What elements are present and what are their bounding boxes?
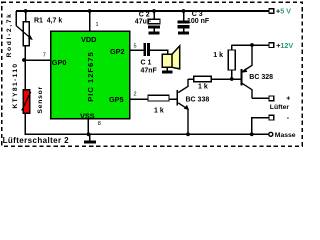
wire GP5 to R — [130, 98, 148, 100]
svg-text:+5 V: +5 V — [276, 7, 291, 16]
resistor R1 body (poti) — [23, 22, 29, 46]
wire R2 to node B — [211, 78, 240, 80]
svg-text:Rodl-2,7k: Rodl-2,7k — [6, 13, 13, 58]
wire VSS to Masse rail — [87, 119, 89, 135]
node VSS junction — [87, 132, 91, 136]
wire VDD to +5V rail — [89, 11, 91, 31]
svg-text:GP2: GP2 — [110, 47, 125, 56]
node Q2 emitter tap — [250, 43, 254, 47]
ground (below speaker) — [162, 70, 173, 73]
transistor Q2 BC328 (PNP) — [240, 45, 273, 98]
svg-text:Lüfter: Lüfter — [270, 104, 290, 111]
node B (base node) — [230, 77, 234, 81]
wire GP2 to C1 — [130, 49, 144, 51]
node C2 tap — [152, 9, 156, 13]
wire Q2 collector to Luefter+ — [252, 97, 269, 99]
sensor KTY81-110 body — [22, 90, 31, 114]
svg-text:Lüfterschalter 2: Lüfterschalter 2 — [3, 136, 70, 145]
wire poti top stub — [25, 11, 27, 22]
svg-text:GP0: GP0 — [52, 58, 67, 67]
terminal +5V — [269, 7, 291, 16]
svg-text:7: 7 — [43, 53, 46, 59]
speaker (piezo) — [162, 46, 180, 70]
resistor 1k (pull-up to +12V) — [228, 45, 235, 79]
resistor 1k (GP5 base series) — [148, 95, 169, 101]
svg-text:8: 8 — [98, 121, 101, 127]
svg-text:R14,7 k: R14,7 k — [34, 17, 62, 24]
terminal Luefter + — [269, 95, 290, 102]
node poti tap on +5V rail — [24, 9, 28, 13]
svg-text:VSS: VSS — [80, 111, 95, 120]
svg-text:GP5: GP5 — [109, 95, 124, 104]
wire poti bottom to node — [24, 46, 26, 61]
op-amp U1 : PIC12F675 block — [51, 31, 130, 120]
wire node to sensor — [24, 60, 26, 90]
svg-text:1 k: 1 k — [213, 52, 223, 59]
svg-text:BC 338: BC 338 — [186, 96, 210, 103]
svg-text:47nF: 47nF — [141, 67, 158, 74]
wire Luefter- to Masse rail — [252, 118, 269, 135]
capacitor C3 (100nF) — [178, 11, 190, 31]
wire +5V rail — [16, 10, 269, 12]
border frame (dashed) — [2, 2, 303, 146]
wire sensor bottom to Masse rail — [25, 113, 28, 134]
wire Masse rail — [25, 133, 268, 135]
svg-text:+: + — [286, 95, 290, 102]
svg-text:VDD: VDD — [81, 35, 96, 44]
svg-text:BC 328: BC 328 — [249, 74, 273, 81]
node C3 tap — [182, 9, 186, 13]
svg-text:2: 2 — [134, 92, 137, 98]
transistor Q1 BC338 (NPN) — [176, 79, 209, 134]
terminal +12V — [269, 41, 293, 50]
node A (divider node) — [22, 58, 26, 62]
svg-text:+12V: +12V — [276, 41, 293, 50]
ground (below C3) — [178, 31, 189, 34]
svg-text:1: 1 — [96, 22, 99, 28]
svg-text:Masse: Masse — [275, 132, 296, 139]
wire node to GP0 — [24, 59, 50, 61]
svg-text:100 nF: 100 nF — [187, 18, 210, 25]
potentiometer R1 wiper arrow — [16, 26, 33, 41]
svg-text:1 k: 1 k — [154, 108, 164, 115]
node Q1 emitter on Masse rail — [186, 132, 190, 136]
terminal Luefter - — [269, 115, 290, 122]
svg-text:C 3: C 3 — [192, 11, 203, 18]
wire R to Q1 base — [169, 98, 176, 100]
capacitor C1 (47nF) — [144, 43, 150, 56]
svg-text:PIC 12F675: PIC 12F675 — [86, 51, 95, 102]
svg-text:47uF: 47uF — [135, 18, 152, 25]
terminal Masse — [269, 132, 296, 139]
wire Q1 collector to R2 — [188, 78, 194, 80]
svg-text:1 k: 1 k — [198, 84, 208, 91]
node Luefter- on rail — [250, 132, 254, 136]
wire +12V rail — [232, 44, 269, 46]
node VDD tap — [88, 9, 92, 13]
wire C1 to speaker — [150, 50, 168, 55]
capacitor C2 (electrolytic 47uF) — [148, 11, 160, 31]
wire poti wiper drop — [15, 11, 17, 26]
svg-text:5: 5 — [134, 44, 137, 50]
svg-text:Sensor: Sensor — [37, 86, 44, 114]
resistor 1k (collector to base link) — [194, 76, 212, 82]
ground (below C2) — [149, 31, 160, 34]
svg-text:KTY81-110: KTY81-110 — [12, 63, 19, 109]
svg-text:C 1: C 1 — [141, 59, 152, 66]
ground (below Masse rail) — [84, 134, 96, 143]
